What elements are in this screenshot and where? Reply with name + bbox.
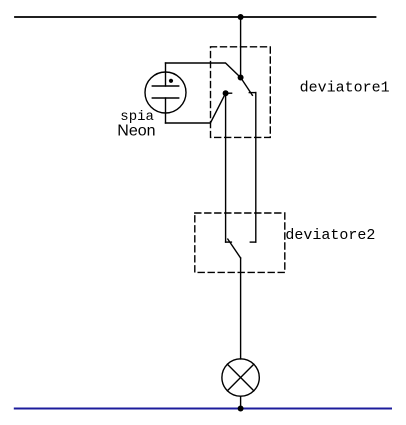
node common pivot dot deviatore1 — [238, 75, 244, 81]
deviatore1 dashed enclosure — [211, 47, 271, 138]
node junction dot top — [238, 14, 244, 20]
neon lamp H1 gas dot — [169, 79, 173, 83]
wire neon bottom to left contact — [166, 93, 226, 123]
wire lamp to neutral — [240, 396, 242, 408]
svg-text:Neon: Neon — [117, 123, 155, 140]
neon lamp H1 top lead — [165, 63, 167, 86]
wire N neutral bottom rail blue — [15, 408, 391, 410]
svg-text:deviatore1: deviatore1 — [300, 79, 390, 96]
wire neon top to common node — [166, 63, 241, 78]
svg-text:deviatore2: deviatore2 — [285, 227, 375, 244]
wire left traveller — [225, 93, 227, 242]
neon lamp H1 top electrode — [152, 85, 178, 87]
lamp E1 cross stroke 1 — [227, 364, 253, 390]
wire deviatore2 common to lamp — [240, 258, 242, 359]
pin left contact tick deviatore2 — [226, 241, 232, 243]
neon lamp H1 bottom electrode — [152, 97, 178, 99]
pin right contact tick deviatore2 — [250, 241, 256, 243]
lamp E1 cross stroke 2 — [227, 364, 253, 390]
wire right traveller — [255, 93, 257, 243]
pin right contact tick deviatore1 — [249, 92, 256, 94]
neon lamp H1 envelope circle — [145, 72, 186, 113]
lamp E1 circle — [222, 359, 259, 396]
pin left contact tick deviatore1 — [226, 92, 232, 94]
node left contact dot deviatore1 — [223, 90, 229, 96]
switch arm deviatore2 — [228, 239, 241, 258]
wire L1 phase top rail — [15, 16, 376, 18]
neon lamp H1 bottom lead — [165, 98, 167, 123]
deviatore2 dashed enclosure — [195, 213, 285, 272]
node junction dot bottom — [238, 406, 244, 412]
switch arm deviatore1 — [241, 78, 253, 96]
wire phase drop to deviatore1 common — [240, 17, 242, 78]
